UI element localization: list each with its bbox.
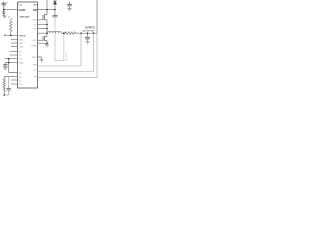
svg-text:CS: CS (33, 24, 36, 26)
svg-text:FB2: FB2 (33, 64, 36, 66)
svg-text:SD: SD (19, 77, 22, 79)
svg-text:AGND: AGND (19, 9, 26, 12)
svg-text:C2: C2 (19, 55, 21, 57)
svg-text:GND: GND (19, 62, 24, 64)
svg-text:GND: GND (32, 57, 37, 59)
svg-text:5.0V TO 15V: 5.0V TO 15V (83, 31, 95, 33)
svg-text:C1: C1 (19, 51, 21, 53)
svg-text:(H): (H) (34, 76, 37, 78)
svg-text:F1: F1 (34, 70, 36, 72)
svg-text:BST: BST (34, 4, 39, 6)
svg-text:+: + (7, 1, 9, 4)
svg-text:BAT: BAT (33, 9, 38, 12)
svg-text:ON3: ON3 (19, 46, 23, 48)
svg-text:OUTPUT: OUTPUT (85, 27, 95, 30)
svg-text:EXT: EXT (33, 20, 38, 22)
svg-text:ON1: ON1 (19, 39, 23, 41)
svg-text:6V: 6V (10, 19, 13, 21)
svg-text:PG: PG (19, 84, 22, 86)
svg-text:PGND: PGND (31, 45, 37, 47)
svg-text:ON2: ON2 (19, 43, 23, 45)
svg-text:LX: LX (33, 28, 36, 30)
svg-text:EXT: EXT (33, 40, 38, 42)
svg-text:C3: C3 (19, 59, 21, 61)
svg-text:LO: LO (19, 80, 22, 82)
svg-text:MAX1553: MAX1553 (20, 16, 30, 19)
svg-text:Vcc: Vcc (19, 4, 24, 6)
svg-text:FB: FB (19, 73, 22, 75)
svg-text:TSMON: TSMON (19, 35, 27, 37)
